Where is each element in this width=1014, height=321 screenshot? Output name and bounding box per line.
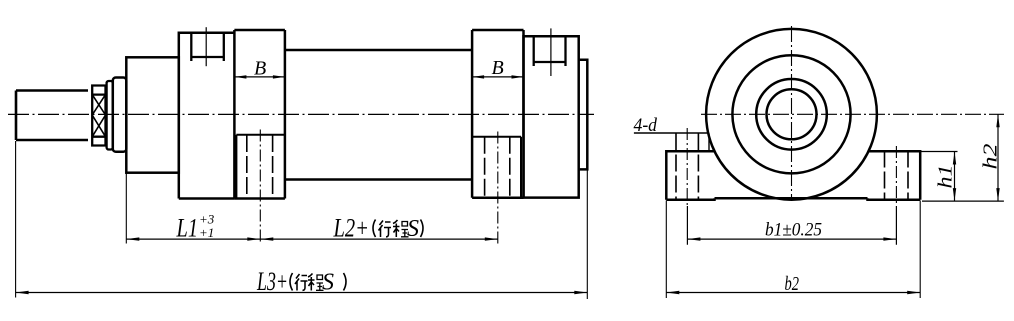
- front foot bracket: [234, 30, 285, 199]
- h1 bottom arrow: [953, 188, 956, 201]
- end view circle 2: [732, 55, 850, 173]
- b1 dimension line: [687, 238, 896, 240]
- L3 extension right: [586, 171, 588, 300]
- open paren L3: [290, 273, 293, 291]
- front oil port: [191, 34, 224, 62]
- open paren L2: [373, 220, 376, 238]
- rear foot hole centerline: [497, 132, 499, 244]
- b1 right arrow: [883, 237, 896, 240]
- rear port centerline: [550, 28, 552, 76]
- svg-text:h2: h2: [980, 144, 1002, 170]
- B front left arrow: [234, 75, 246, 78]
- svg-text:L3+: L3+: [256, 267, 288, 296]
- h2 dimension line: [997, 114, 999, 201]
- front port centerline: [205, 27, 207, 66]
- h2 bottom arrow: [996, 188, 999, 201]
- rear head block: [524, 36, 579, 197]
- b2 right arrow: [907, 291, 920, 294]
- L3 right arrow: [574, 291, 587, 294]
- label L2 (stroke S): [333, 214, 419, 243]
- dimension line L1 L2: [126, 238, 498, 240]
- left base hole hidden lines: [676, 134, 698, 200]
- end cap: [579, 60, 588, 170]
- end view horizontal centerline: [701, 113, 1004, 115]
- b1 left arrow: [687, 237, 700, 240]
- L1 right arrow: [247, 237, 260, 240]
- gland body: [113, 78, 127, 152]
- gland flange: [107, 81, 113, 150]
- rod nut with cross pattern: [92, 86, 105, 146]
- rear foot mounting hole: [472, 137, 521, 198]
- front port block: [179, 33, 235, 199]
- h1 dimension line: [954, 152, 956, 202]
- hanzi xing (L3): [295, 274, 308, 291]
- svg-text:b2: b2: [785, 273, 800, 295]
- L3 extension left: [15, 141, 17, 298]
- L3 left arrow: [16, 291, 29, 294]
- B rear right arrow: [512, 75, 524, 78]
- front head (rod side): [126, 57, 179, 172]
- hanzi xing (L2): [379, 221, 392, 238]
- main axis centerline: [8, 113, 594, 115]
- rear foot bracket: [472, 30, 523, 198]
- svg-text:+1: +1: [199, 225, 214, 240]
- h1 top arrow: [953, 152, 956, 165]
- end view outer circle: [706, 29, 877, 200]
- B dimension front: [234, 76, 285, 78]
- h1 extension top: [920, 151, 957, 153]
- pedestal recess bottom: [715, 197, 868, 200]
- B dimension rear: [472, 76, 523, 78]
- svg-text:h1: h1: [935, 165, 957, 189]
- hanzi cheng (L3): [308, 274, 324, 291]
- b2 dimension line: [666, 292, 920, 294]
- svg-text:L1: L1: [176, 214, 198, 243]
- pedestal base left: [666, 151, 714, 200]
- svg-text:S: S: [407, 216, 419, 242]
- svg-text:b1±0.25: b1±0.25: [765, 220, 822, 241]
- svg-text:S: S: [322, 270, 334, 296]
- close paren L2: [421, 220, 424, 238]
- dimension L1 extension line left: [125, 174, 127, 244]
- b2 extension lines: [666, 201, 920, 299]
- rear oil port: [534, 37, 566, 66]
- svg-text:L2+: L2+: [333, 214, 369, 243]
- L2 right arrow: [485, 237, 498, 240]
- B rear left arrow: [472, 75, 484, 78]
- right base hole hidden lines: [885, 151, 909, 201]
- L2 left arrow: [260, 237, 273, 240]
- end view circle 3: [756, 79, 827, 150]
- svg-text:B: B: [492, 57, 504, 79]
- piston rod: [16, 91, 88, 141]
- hanzi cheng (L2): [393, 220, 409, 237]
- front foot hole centerline: [259, 130, 261, 244]
- b1 extension lines: [687, 206, 896, 245]
- 4-d leader line: [634, 133, 709, 151]
- h2 top arrow: [996, 114, 999, 127]
- label L3 (stroke S): [256, 267, 334, 296]
- b2 left arrow: [666, 291, 679, 294]
- svg-text:B: B: [254, 58, 266, 80]
- right base hole centerline: [895, 146, 897, 206]
- end view vertical centerline: [791, 26, 793, 201]
- front foot mounting hole: [236, 135, 285, 199]
- h1 h2 extension bottom: [922, 200, 1004, 202]
- L1 left arrow: [126, 237, 139, 240]
- arrowheads: [16, 75, 1000, 294]
- end view bore circle: [767, 89, 817, 139]
- pedestal base right: [868, 151, 921, 200]
- left base hole centerline: [686, 128, 688, 206]
- svg-text:4-d: 4-d: [634, 115, 658, 136]
- dimension line L3: [16, 292, 588, 294]
- close paren L3: [344, 273, 347, 291]
- B front right arrow: [273, 75, 285, 78]
- cylinder tube: [285, 50, 472, 180]
